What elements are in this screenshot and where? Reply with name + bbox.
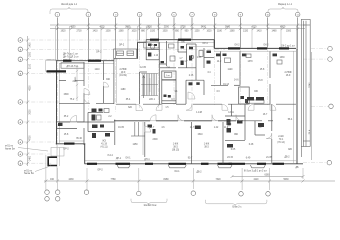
svg-text:70.1: 70.1	[279, 139, 284, 141]
svg-text:75.2: 75.2	[70, 99, 75, 101]
mid section bathroom cluster walls	[146, 40, 166, 64]
left wing bottom wall	[56, 141, 86, 164]
svg-text:14.7: 14.7	[190, 127, 195, 129]
svg-text:1.148: 1.148	[196, 112, 202, 114]
svg-text:2100: 2100	[29, 63, 31, 69]
svg-text:ОР-2: ОР-2	[96, 51, 102, 53]
svg-text:3000: 3000	[29, 109, 31, 115]
corridor bottom wall	[57, 121, 273, 122]
svg-text:2300: 2300	[164, 27, 170, 29]
svg-text:ОК-2: ОК-2	[234, 45, 240, 47]
svg-text:2-НБФ: 2-НБФ	[120, 68, 127, 71]
svg-text:ОК-2: ОК-2	[263, 45, 269, 47]
svg-text:ДП-1: ДП-1	[144, 159, 150, 161]
svg-text:1480: 1480	[271, 31, 277, 33]
svg-text:(70.14): (70.14)	[277, 142, 285, 144]
interior wall x=84	[83, 62, 85, 145]
svg-text:балке 5м: балке 5м	[5, 148, 15, 150]
svg-text:38.5: 38.5	[204, 147, 209, 149]
svg-text:4110: 4110	[100, 27, 106, 29]
bottom brace right	[205, 200, 267, 209]
svg-text:56.4: 56.4	[288, 119, 293, 121]
scattered interior dimension strings	[63, 42, 299, 170]
svg-text:1120: 1120	[228, 69, 234, 71]
svg-text:1380: 1380	[118, 31, 124, 33]
svg-text:1020: 1020	[150, 31, 156, 33]
svg-text:ДН-13-Т4.1: ДН-13-Т4.1	[67, 66, 80, 68]
svg-text:15.8: 15.8	[260, 69, 265, 71]
svg-text:5030: 5030	[283, 179, 289, 181]
svg-text:1250: 1250	[132, 144, 138, 146]
exterior wall: mid section top	[146, 40, 214, 43]
svg-text:ОК-1: ОК-1	[174, 171, 180, 173]
svg-text:23.15: 23.15	[227, 157, 233, 159]
svg-text:35.40: 35.40	[76, 138, 82, 140]
svg-text:(41.11): (41.11)	[100, 147, 107, 149]
svg-text:13.11: 13.11	[228, 112, 234, 114]
svg-text:ОР-2: ОР-2	[119, 45, 125, 47]
svg-text:4430: 4430	[68, 179, 74, 181]
svg-text:1020: 1020	[206, 31, 212, 33]
svg-text:1.42: 1.42	[214, 127, 219, 129]
svg-text:1410: 1410	[256, 31, 262, 33]
svg-text:(38.15): (38.15)	[172, 150, 180, 152]
svg-text:14.7: 14.7	[150, 127, 155, 129]
svg-text:35.4: 35.4	[126, 99, 131, 101]
interior wall x=114.8 double	[114, 59, 116, 146]
top brace group left	[50, 3, 88, 14]
svg-text:Ф-3 рп 3 дБ 1 рп 3 шт: Ф-3 рп 3 дБ 1 рп 3 шт	[244, 170, 268, 173]
svg-text:ОК-2 др 1 шт: ОК-2 др 1 шт	[281, 46, 296, 48]
svg-text:3840: 3840	[225, 27, 231, 29]
svg-text:2300: 2300	[152, 139, 158, 141]
top dimension line 2	[50, 27, 305, 32]
top brace group right	[268, 4, 298, 14]
stair arrow	[143, 76, 145, 98]
svg-text:41.19: 41.19	[101, 144, 107, 146]
svg-text:м-51 по: м-51 по	[5, 146, 14, 148]
svg-text:1400: 1400	[29, 155, 31, 161]
svg-text:1320: 1320	[243, 31, 249, 33]
bottom grid bubbles	[45, 190, 271, 201]
top grid bubbles row	[55, 12, 300, 17]
svg-text:ДН-Тс ДЛ 2 шт: ДН-Тс ДЛ 2 шт	[63, 56, 79, 58]
bottom dimension line (full)	[44, 179, 335, 183]
svg-text:1 шт: 1 шт	[166, 75, 170, 77]
svg-text:1180: 1180	[121, 89, 127, 91]
bottom dimension line (right partial)	[231, 175, 305, 178]
dim chain inside left wing room	[76, 66, 78, 101]
svg-text:1370: 1370	[247, 61, 253, 63]
extra fixture outline boxes mid section	[97, 44, 283, 126]
bottom extension lines	[46, 155, 303, 191]
svg-text:1300: 1300	[105, 31, 111, 33]
svg-text:4300: 4300	[29, 85, 31, 91]
left balcony box	[46, 60, 66, 71]
svg-text:1.65: 1.65	[197, 57, 202, 59]
svg-text:балке 5м: балке 5м	[24, 173, 34, 175]
svg-text:16.9: 16.9	[286, 75, 291, 77]
left vertical dimension line	[26, 36, 31, 166]
svg-text:Жилой дом 1-1: Жилой дом 1-1	[61, 3, 78, 6]
small room right of bath cluster	[204, 48, 214, 68]
svg-text:7320: 7320	[215, 179, 221, 181]
left wing upper room divider	[59, 80, 84, 82]
svg-text:220.1: 220.1	[149, 99, 155, 101]
svg-text:1500: 1500	[63, 94, 69, 96]
elevator shaft	[162, 71, 176, 104]
svg-text:21.05: 21.05	[266, 157, 272, 159]
mid section below-corridor rooms	[131, 122, 223, 164]
svg-text:16.7: 16.7	[263, 114, 268, 116]
svg-text:2.16: 2.16	[189, 75, 194, 77]
leader notes left side	[5, 146, 51, 176]
step down mid to right section	[213, 40, 215, 49]
stairwell	[140, 42, 160, 104]
bathrooms right of elevator	[150, 40, 204, 104]
top extension lines from walls to dim lines	[56, 26, 297, 60]
svg-text:4110: 4110	[254, 179, 260, 181]
svg-text:ОК-1: ОК-1	[125, 158, 131, 160]
right wall of main block	[294, 48, 298, 163]
svg-text:ОР-2: ОР-2	[97, 170, 103, 172]
window sills bottom wall	[64, 144, 284, 164]
svg-text:4700: 4700	[29, 135, 31, 141]
svg-text:ЖЗ: ЖЗ	[102, 141, 106, 143]
note text above left wing	[63, 51, 102, 58]
svg-text:ОР-2: ОР-2	[63, 149, 69, 151]
svg-text:Жилой блок: Жилой блок	[144, 204, 158, 207]
svg-text:1530: 1530	[162, 31, 168, 33]
svg-text:1400: 1400	[29, 42, 31, 48]
svg-text:ОР-4: ОР-4	[202, 43, 208, 45]
balcony box ДН-4.5 over left wing	[114, 49, 137, 58]
room labels	[63, 43, 296, 173]
exterior wall: left wing left wall	[57, 60, 60, 181]
vertical grid lines	[57, 17, 297, 150]
svg-text:2-ЖК: 2-ЖК	[278, 136, 284, 138]
svg-text:1250: 1250	[194, 31, 200, 33]
svg-text:14.2: 14.2	[217, 61, 222, 63]
svg-text:2730: 2730	[76, 31, 82, 33]
left grid bubbles column	[18, 38, 23, 166]
left wing bathroom fixtures	[92, 109, 111, 139]
svg-text:(19.69): (19.69)	[119, 75, 127, 77]
svg-text:ДБ: ДБ	[295, 167, 299, 169]
svg-text:7к.14: 7к.14	[107, 155, 113, 157]
svg-text:Блок 2-с: Блок 2-с	[233, 206, 243, 208]
svg-text:Маркер 1-с-1: Маркер 1-с-1	[278, 4, 293, 6]
svg-text:1410: 1410	[92, 31, 98, 33]
svg-text:35.2: 35.2	[64, 116, 69, 118]
svg-text:15.8: 15.8	[64, 134, 69, 136]
svg-text:15.8: 15.8	[258, 80, 263, 82]
svg-text:1020: 1020	[131, 31, 137, 33]
svg-text:1380: 1380	[229, 31, 235, 33]
svg-text:1920: 1920	[60, 31, 66, 33]
svg-text:1180: 1180	[217, 31, 223, 33]
svg-text:6.49: 6.49	[246, 158, 251, 160]
svg-text:м-51 по: м-51 по	[24, 170, 33, 172]
svg-text:38.5: 38.5	[173, 147, 178, 149]
svg-text:1630: 1630	[279, 57, 285, 59]
svg-text:8180: 8180	[163, 179, 169, 181]
svg-text:1500: 1500	[286, 31, 292, 33]
porch bottom-left	[48, 148, 64, 167]
window sills top walls	[63, 40, 289, 61]
exterior wall: main bottom	[85, 161, 304, 164]
svg-text:7780: 7780	[110, 179, 116, 181]
svg-text:ДБ-2: ДБ-2	[284, 157, 290, 159]
svg-text:6.05: 6.05	[231, 149, 236, 151]
interior wall x=103	[103, 61, 105, 103]
horizontal grid lines from left bubbles	[23, 40, 225, 163]
svg-text:14.6: 14.6	[234, 80, 239, 82]
right grid bubbles	[303, 46, 333, 165]
door arcs	[70, 82, 276, 139]
svg-text:2-НБФ: 2-НБФ	[285, 71, 292, 74]
svg-text:ДП-1: ДП-1	[116, 158, 122, 160]
svg-text:1210: 1210	[94, 69, 100, 71]
svg-text:1-ЖК: 1-ЖК	[204, 144, 210, 146]
svg-text:ДН-Тк дл 1 шт: ДН-Тк дл 1 шт	[63, 53, 79, 55]
svg-text:ДБ-2: ДБ-2	[196, 172, 202, 174]
svg-text:19.13: 19.13	[223, 84, 229, 86]
svg-text:1-ЖК: 1-ЖК	[173, 144, 179, 146]
svg-text:19.9: 19.9	[121, 72, 126, 74]
svg-text:12.05: 12.05	[140, 67, 146, 69]
interior walls left wing horizontals	[57, 103, 115, 131]
exterior wall: right section top	[214, 48, 296, 51]
bay bumps below bottom wall	[117, 165, 265, 168]
svg-text:1500: 1500	[29, 51, 31, 57]
svg-text:6.48: 6.48	[249, 144, 254, 146]
step up between left wing and mid section	[138, 42, 159, 59]
right bay tower	[301, 19, 310, 157]
svg-text:90.7: 90.7	[188, 158, 193, 160]
right vertical dimension line	[310, 52, 312, 160]
svg-text:1510: 1510	[197, 134, 203, 136]
right section lower rooms	[225, 97, 272, 163]
svg-text:1.14: 1.14	[154, 55, 159, 57]
corridor top wall	[116, 103, 296, 105]
exterior wall: left wing top	[46, 60, 114, 64]
boxed label ДН-13-Т4.1	[61, 63, 84, 68]
svg-text:16.05: 16.05	[118, 127, 124, 129]
right section interior verticals	[211, 52, 277, 105]
bottom brace left	[131, 199, 167, 208]
svg-text:11.9: 11.9	[224, 127, 229, 129]
top dimension line 1	[50, 24, 305, 29]
